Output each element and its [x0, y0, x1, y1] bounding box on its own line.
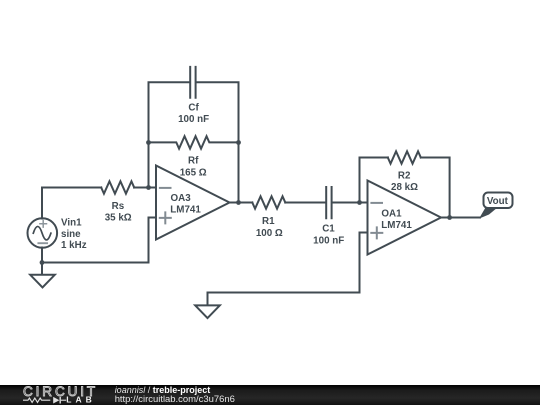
svg-text:sine: sine [61, 229, 81, 240]
wire Vin1 bottom to junction [41, 248, 43, 263]
svg-text:OA1: OA1 [381, 208, 402, 219]
wire node A up to Cf [149, 82, 190, 187]
wire OA1 feedback left vertical [360, 158, 388, 203]
ground G2 [195, 305, 220, 318]
wire Rs to OA3 inverting input [134, 187, 156, 189]
svg-text:35 kΩ: 35 kΩ [105, 213, 132, 224]
svg-text:http://circuitlab.com/c3u76n6: http://circuitlab.com/c3u76n6 [115, 394, 235, 405]
wire OA3 output to R1 [230, 202, 253, 204]
label Rf [180, 156, 207, 179]
junction OA3 output node [236, 200, 241, 205]
label OA1 [381, 208, 412, 231]
junction node A [146, 185, 151, 190]
wire ground run to Vin1 bottom [42, 262, 149, 264]
svg-text:LM741: LM741 [381, 220, 412, 231]
svg-text:C1: C1 [322, 223, 335, 234]
svg-text:165 Ω: 165 Ω [180, 167, 207, 178]
svg-text:R1: R1 [262, 216, 275, 227]
svg-text:100 nF: 100 nF [178, 114, 209, 125]
voltage source Vin1 [28, 218, 58, 248]
wire Vin1 top to Rs [42, 188, 101, 219]
wire R1 to C1 [285, 202, 325, 204]
wire OA3 plus input down to ground run [149, 218, 157, 263]
svg-text:Rs: Rs [112, 201, 125, 212]
junction Rf right [236, 140, 241, 145]
label Vin1 [61, 217, 87, 251]
label C1 [313, 223, 344, 246]
resistor R1 [252, 196, 285, 208]
wire OA1 plus input to ground G2 [208, 233, 368, 306]
svg-text:OA3: OA3 [171, 193, 192, 204]
svg-text:LAB: LAB [66, 395, 95, 405]
svg-text:Rf: Rf [188, 156, 199, 167]
svg-text:28 kΩ: 28 kΩ [391, 182, 418, 193]
svg-text:Vout: Vout [487, 196, 509, 207]
svg-text:LM741: LM741 [170, 204, 201, 215]
resistor Rf [149, 136, 239, 148]
junction OA1 inverting node [357, 200, 362, 205]
op-amp OA1 [368, 181, 442, 255]
label R1 [256, 216, 283, 239]
resistor R2 [388, 151, 421, 163]
flag tail Vout [479, 208, 498, 219]
junction Vin1 bottom [40, 260, 45, 265]
CircuitLab logo [23, 384, 98, 405]
footer bar [0, 385, 540, 405]
label Cf [178, 103, 209, 126]
resistor Rs [101, 181, 134, 193]
wire OA1 output to Vout [441, 217, 480, 219]
footer project text [115, 385, 235, 405]
svg-text:1 kHz: 1 kHz [61, 240, 87, 251]
svg-text:Cf: Cf [188, 103, 199, 114]
svg-text:Vin1: Vin1 [61, 217, 82, 228]
ground G1 [30, 263, 55, 288]
junction Rf left [146, 140, 151, 145]
wire Cf right side down to output node [197, 82, 239, 202]
wire R2 to OA1 output [421, 158, 450, 218]
label OA3 [170, 193, 201, 215]
svg-text:R2: R2 [398, 171, 411, 182]
op-amp OA3 [156, 166, 230, 240]
wire C1 to OA1 inverting input [333, 202, 368, 204]
svg-text:100 Ω: 100 Ω [256, 228, 283, 239]
capacitor C1 [326, 187, 331, 218]
svg-text:100 nF: 100 nF [313, 236, 344, 247]
label R2 [391, 171, 418, 193]
node Vout [484, 193, 513, 209]
junction OA1 output node [447, 215, 452, 220]
capacitor Cf [190, 67, 195, 98]
label Rs [105, 201, 132, 224]
